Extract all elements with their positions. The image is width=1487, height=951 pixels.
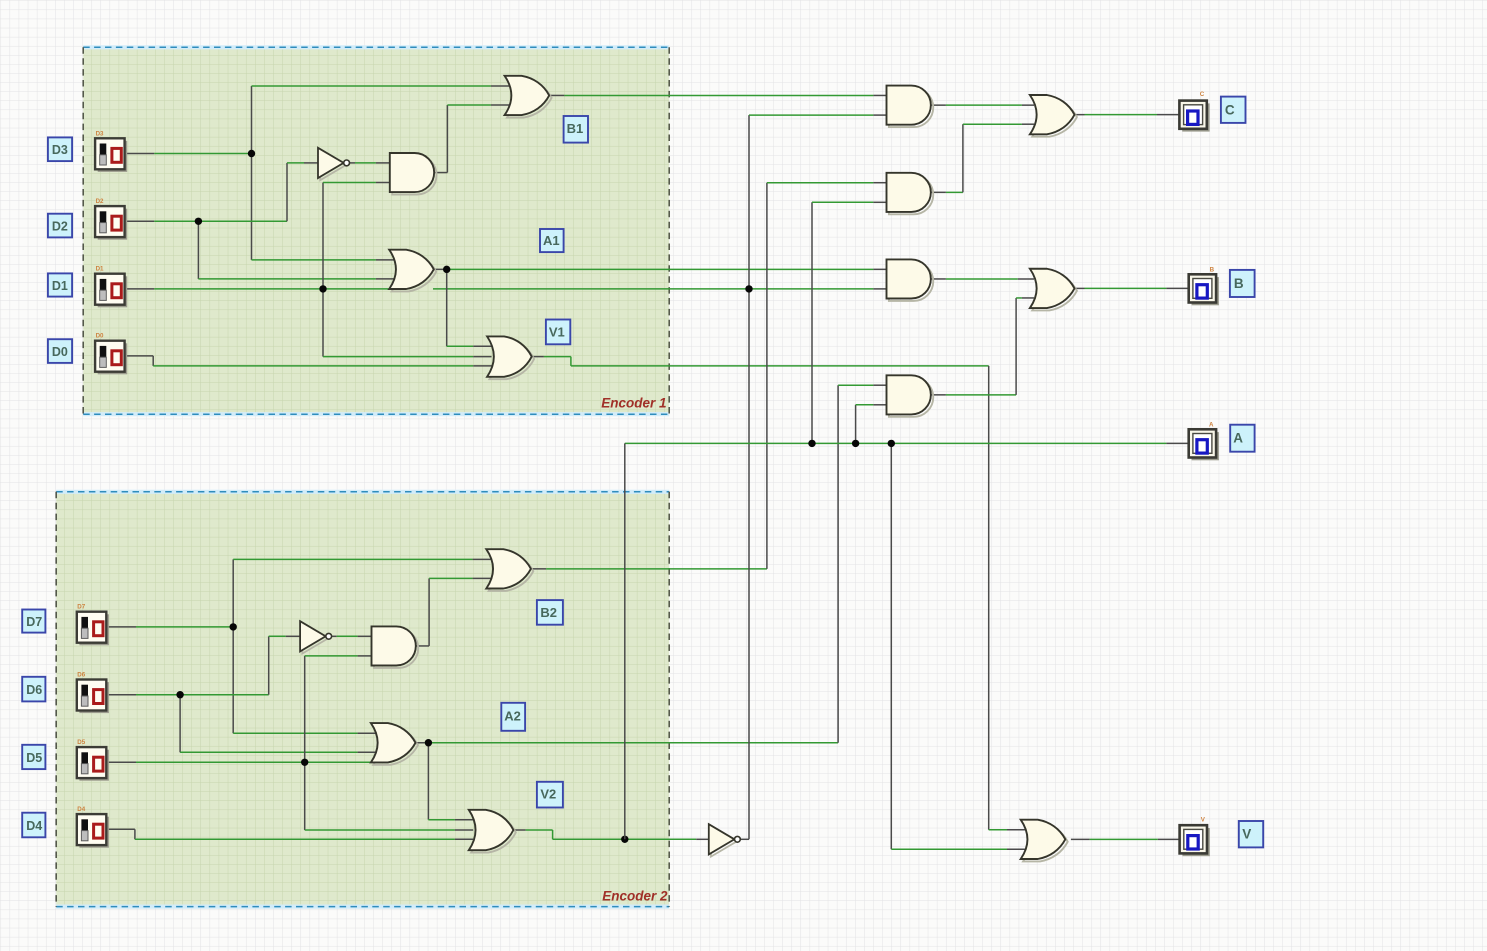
- wire NOT3 output riser: [740, 115, 887, 839]
- junction A to U8: [808, 440, 815, 447]
- label net B2: [537, 600, 563, 625]
- switch D1: [95, 274, 127, 308]
- label D0: [48, 339, 72, 363]
- switch D0: [95, 341, 127, 375]
- OR gate U4 (A1): [389, 250, 436, 292]
- svg-text:D0: D0: [96, 333, 104, 340]
- wire net A line: [625, 202, 1189, 849]
- junction D5 tap: [301, 759, 308, 766]
- wire D3 net: [125, 86, 509, 260]
- svg-text:D4: D4: [77, 806, 85, 813]
- Encoder 1 block outline: [83, 47, 669, 414]
- AND gate U8: [887, 173, 934, 214]
- svg-text:A2: A2: [504, 709, 521, 724]
- svg-text:C: C: [1200, 91, 1205, 98]
- NOT gate U1b: [300, 621, 332, 653]
- OR gate U3 (B1): [505, 76, 552, 118]
- junction A to V gate: [888, 440, 895, 447]
- NOT gate U1: [318, 148, 350, 180]
- label net A1: [540, 229, 564, 252]
- wire D4 net: [106, 829, 473, 839]
- wire D0 net: [125, 356, 492, 366]
- switch D2: [95, 206, 127, 240]
- OR gate U12 (B): [1030, 269, 1077, 311]
- label D7: [22, 610, 45, 633]
- OR gate U11 (C): [1030, 95, 1077, 137]
- wire NOT2 output: [331, 635, 371, 637]
- svg-text:D2: D2: [96, 198, 104, 205]
- OR gate U3b (B2): [486, 549, 533, 591]
- wire U7 output to C gate: [932, 104, 1034, 106]
- wire U2 input from D1: [323, 183, 492, 357]
- wire U6 input from D5: [305, 656, 474, 830]
- switch D7: [77, 612, 109, 646]
- wire net V1: [531, 357, 1025, 830]
- svg-text:A: A: [1233, 430, 1243, 445]
- wire D1 net: [125, 288, 887, 290]
- probe C: [1179, 101, 1209, 132]
- svg-text:D6: D6: [77, 672, 85, 679]
- svg-text:D7: D7: [77, 604, 85, 611]
- junction A1 branch: [443, 266, 450, 273]
- wire NOT1 output: [349, 162, 389, 164]
- junction D3 branch: [248, 150, 255, 157]
- label net A: [1230, 425, 1254, 452]
- label D1: [48, 273, 72, 296]
- AND gate U9: [887, 259, 934, 301]
- svg-text:V1: V1: [549, 325, 565, 340]
- svg-text:D6: D6: [26, 683, 42, 697]
- junction A to U10: [852, 440, 859, 447]
- svg-text:D1: D1: [96, 266, 104, 273]
- wire net V2: [513, 830, 709, 839]
- svg-text:D3: D3: [96, 130, 104, 137]
- svg-text:A1: A1: [543, 233, 560, 248]
- wire net B1: [550, 94, 887, 96]
- svg-text:B2: B2: [540, 605, 557, 620]
- junction D2 branch: [195, 218, 202, 225]
- label D4: [22, 813, 45, 838]
- OR gate U4b (A2): [371, 723, 418, 765]
- label net A2: [501, 703, 525, 731]
- AND gate U7: [887, 86, 934, 128]
- wire net C output: [1075, 114, 1180, 116]
- probe V: [1180, 825, 1210, 856]
- wire D2 net: [125, 163, 394, 279]
- svg-text:D7: D7: [26, 615, 42, 629]
- junction A2 branch: [425, 739, 432, 746]
- svg-text:D1: D1: [52, 279, 68, 293]
- wire net B output: [1075, 287, 1189, 289]
- probe B: [1189, 274, 1219, 305]
- svg-text:D2: D2: [52, 219, 68, 233]
- svg-text:V: V: [1242, 827, 1251, 842]
- OR gate U13 (V): [1021, 820, 1068, 862]
- NOT gate U14: [709, 824, 741, 856]
- label D2: [48, 214, 72, 238]
- wire U2 output to B1 gate: [435, 105, 509, 173]
- label net V1: [546, 320, 570, 345]
- wire net A2: [416, 385, 887, 820]
- wire net A1: [434, 269, 887, 346]
- label net V2: [537, 782, 563, 808]
- label net B1: [564, 116, 588, 143]
- OR gate U5 (V1): [487, 336, 534, 379]
- wire U9 output to B gate: [932, 278, 1034, 280]
- wire U6 output to B2 gate: [416, 578, 490, 646]
- svg-text:D5: D5: [26, 751, 42, 765]
- switch D3: [95, 138, 127, 172]
- junction NOT3 riser to D1 line: [745, 285, 752, 292]
- svg-text:C: C: [1225, 102, 1235, 117]
- AND gate U6: [372, 626, 419, 668]
- svg-text:D4: D4: [26, 819, 42, 833]
- switch D6: [77, 680, 109, 714]
- wire U10 output to B gate: [932, 298, 1034, 395]
- junction D7 branch: [230, 623, 237, 630]
- AND gate U10: [887, 375, 934, 417]
- svg-text:D3: D3: [52, 143, 68, 157]
- switch D4: [77, 814, 109, 848]
- label D5: [22, 745, 45, 769]
- wire U8 output to C gate: [932, 124, 1034, 192]
- wire D6 net: [106, 636, 375, 752]
- svg-text:A: A: [1209, 421, 1214, 428]
- svg-text:Encoder 2: Encoder 2: [602, 889, 668, 904]
- junction D6 branch: [176, 691, 183, 698]
- svg-text:B1: B1: [567, 121, 584, 136]
- AND gate U2: [390, 153, 437, 195]
- OR gate U5b (V2): [469, 810, 516, 853]
- label D6: [22, 677, 45, 702]
- label net V: [1239, 821, 1263, 847]
- svg-text:D0: D0: [52, 345, 68, 359]
- label net C: [1221, 97, 1246, 123]
- junction V2 to A-line: [621, 836, 628, 843]
- wire D5 net: [106, 761, 373, 763]
- junction D1 tap: [319, 285, 326, 292]
- wire net B2: [532, 183, 888, 569]
- svg-text:D5: D5: [77, 739, 85, 746]
- label D3: [48, 137, 72, 161]
- svg-text:B: B: [1210, 267, 1215, 274]
- label net B: [1230, 270, 1255, 297]
- probe A: [1189, 429, 1219, 460]
- wire net V output: [1071, 838, 1180, 840]
- svg-text:B: B: [1234, 276, 1244, 291]
- switch D5: [77, 747, 109, 781]
- Encoder 2 block outline: [56, 492, 669, 907]
- svg-text:V2: V2: [540, 787, 556, 802]
- wire D7 net: [106, 559, 490, 733]
- svg-text:Encoder 1: Encoder 1: [601, 396, 666, 411]
